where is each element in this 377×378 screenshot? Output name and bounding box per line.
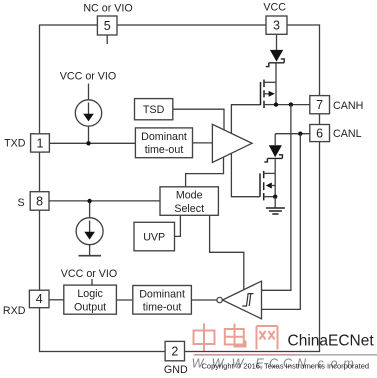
node TXD junction — [86, 141, 90, 145]
svg-text:8: 8 — [36, 194, 43, 208]
svg-text:1: 1 — [37, 136, 44, 150]
svg-text:VCC or VIO: VCC or VIO — [60, 71, 116, 83]
current source I1 — [60, 71, 116, 144]
wire TXD to dominant time-out — [49, 142, 135, 144]
wire dominant time-out to driver — [193, 142, 213, 144]
wire package boundary — [40, 25, 320, 352]
pin 6 CANL — [310, 125, 362, 142]
wire dominant time-out to logic output — [116, 299, 132, 301]
svg-text:UVP: UVP — [143, 232, 165, 244]
svg-text:GND: GND — [164, 364, 188, 376]
svg-text:4: 4 — [36, 292, 43, 306]
svg-text:7: 7 — [316, 98, 323, 112]
svg-text:Logic: Logic — [77, 288, 103, 300]
svg-text:TSD: TSD — [143, 104, 165, 116]
mode select block — [160, 187, 218, 216]
svg-text:Mode: Mode — [176, 190, 203, 202]
svg-text:Copyright © 2016, Texas Instru: Copyright © 2016, Texas Instruments Inco… — [202, 362, 370, 371]
svg-text:VCC: VCC — [263, 1, 286, 13]
node CANL rail junction — [298, 132, 302, 136]
svg-text:Select: Select — [174, 203, 204, 215]
wire CANH rail to receiver input — [262, 105, 291, 291]
op-amp U1 driver — [212, 124, 252, 162]
svg-text:3: 3 — [273, 19, 280, 33]
wire CANL — [275, 133, 310, 135]
wire receiver to dominant time-out — [191, 299, 217, 301]
pin 4 RXD — [3, 290, 49, 317]
wire UVP to mode select — [175, 215, 181, 236]
wire TSD to driver — [173, 109, 224, 130]
svg-text:time-out: time-out — [145, 144, 184, 156]
svg-text:2: 2 — [171, 345, 178, 359]
TSD block — [135, 99, 173, 120]
node Q2 source junction — [273, 195, 277, 199]
pin 7 CANH — [310, 96, 363, 114]
dominant time-out block D1 — [135, 128, 192, 158]
schottky diode D1 — [266, 34, 284, 82]
pin 1 TXD — [4, 134, 49, 152]
wire CANL rail to receiver input — [262, 134, 301, 310]
svg-text:ChinaECNet: ChinaECNet — [288, 333, 375, 350]
pin 8 S — [18, 192, 49, 211]
svg-text:CANH: CANH — [333, 100, 363, 112]
op-amp U2 receiver comparator — [217, 281, 262, 319]
ground — [266, 197, 285, 214]
dominant time-out block D2 — [133, 286, 192, 315]
pin 5 NC or VIO — [83, 3, 132, 45]
svg-text:6: 6 — [316, 126, 323, 140]
wire mode select to driver — [186, 157, 224, 187]
wire S to mode select — [49, 200, 160, 202]
UVP block — [134, 222, 175, 251]
node CANH FET junction — [274, 102, 278, 106]
wire driver gate bus — [231, 105, 260, 197]
transistor Q2 low-side MOSFET — [260, 171, 275, 201]
wire RXD to logic output — [49, 299, 64, 301]
wire CANH — [276, 104, 310, 106]
svg-text:Dominant: Dominant — [141, 131, 187, 143]
schottky diode D2 — [264, 134, 282, 174]
wire supply to logic output — [91, 279, 93, 285]
watermark — [192, 324, 377, 371]
wire mode select to receiver — [210, 215, 244, 289]
svg-text:5: 5 — [104, 19, 111, 33]
svg-text:CANL: CANL — [333, 128, 362, 140]
svg-text:time-out: time-out — [143, 302, 182, 314]
svg-text:TXD: TXD — [4, 138, 26, 150]
svg-text:NC or VIO: NC or VIO — [83, 3, 132, 15]
svg-text:RXD: RXD — [3, 305, 26, 317]
current source I2 — [61, 201, 117, 280]
pin 2 GND — [164, 341, 188, 376]
svg-text:VCC or VIO: VCC or VIO — [61, 268, 117, 280]
node S junction — [87, 199, 91, 203]
node CANH rail junction — [289, 102, 293, 106]
pin 3 VCC — [263, 1, 287, 34]
svg-text:Dominant: Dominant — [139, 288, 185, 300]
svg-text:Output: Output — [74, 301, 106, 313]
logic output block — [64, 285, 117, 314]
svg-text:S: S — [18, 197, 25, 209]
transistor Q1 high-side MOSFET — [261, 80, 277, 109]
